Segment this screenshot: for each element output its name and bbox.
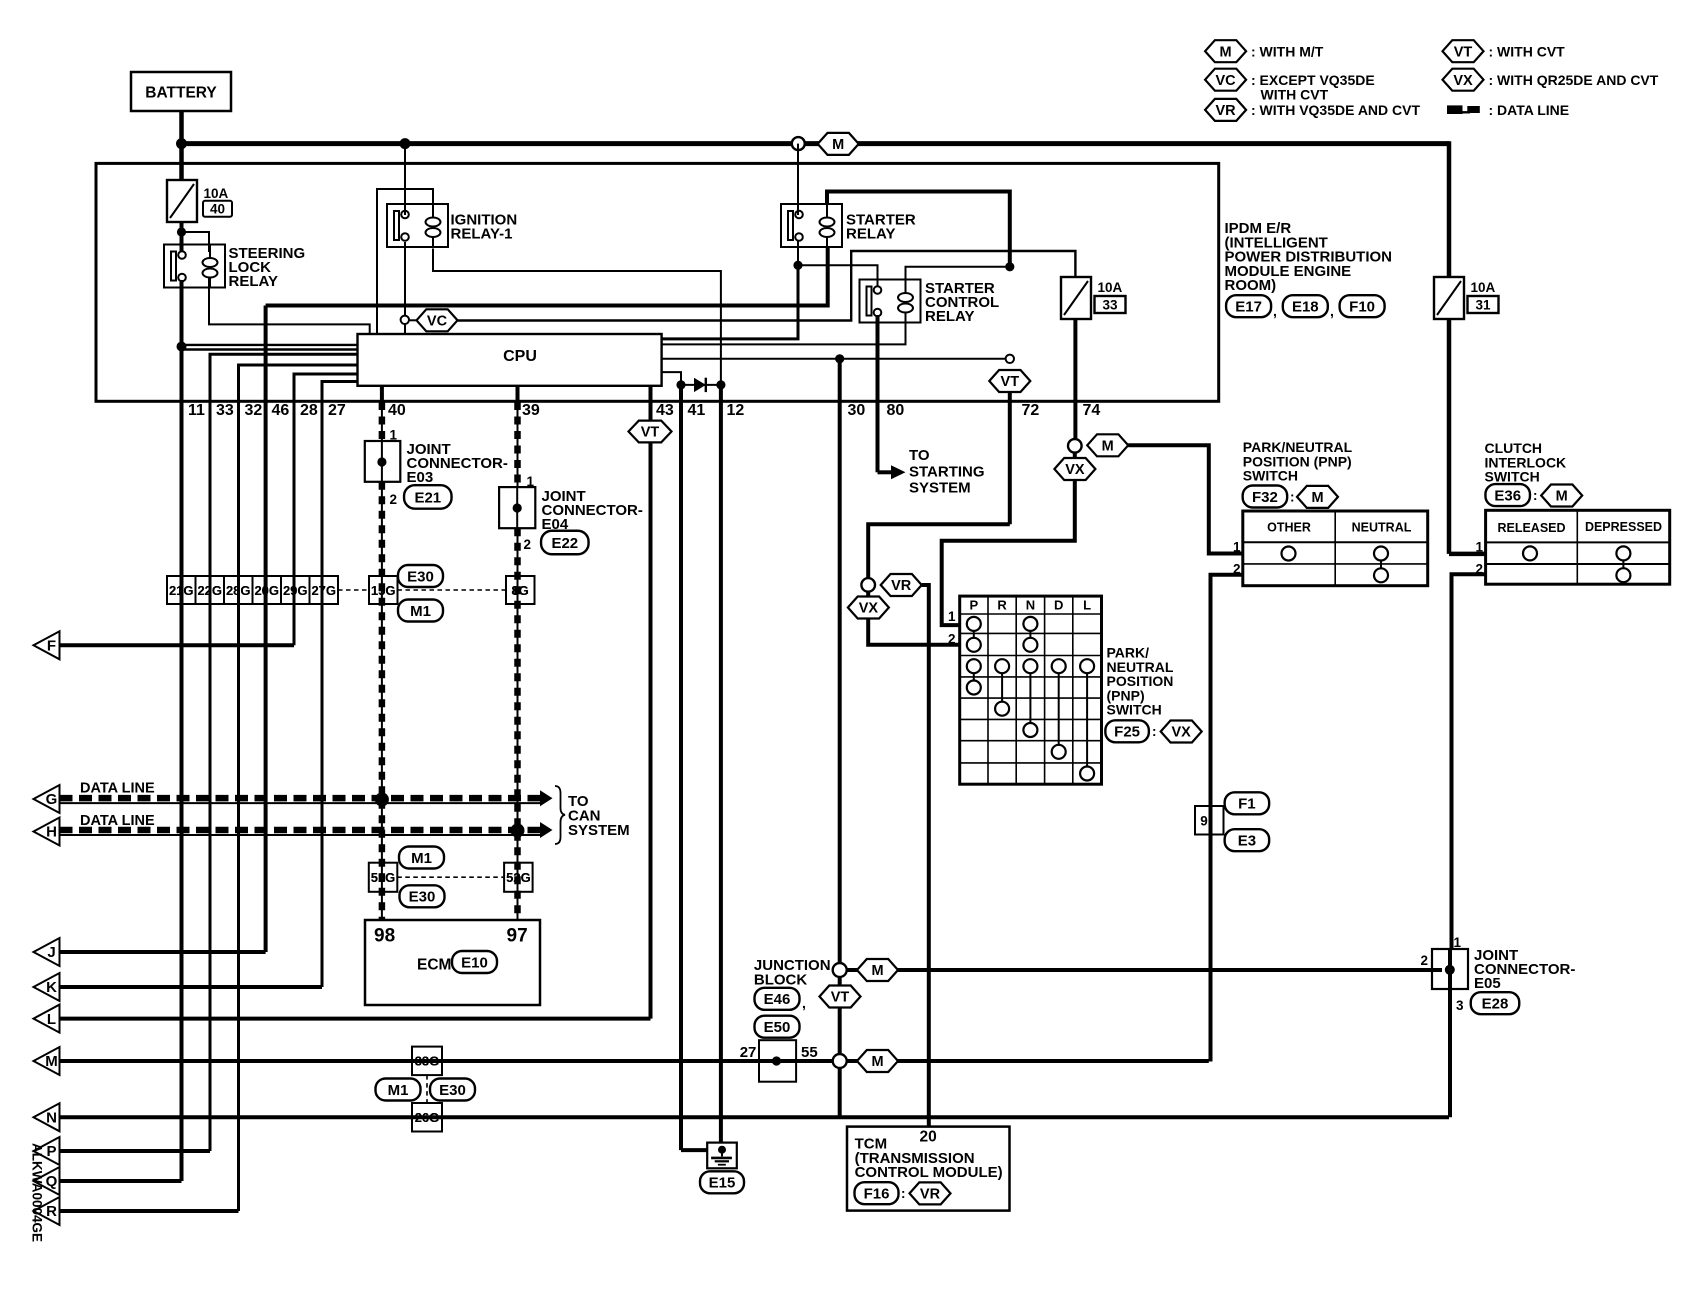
svg-text:,: , [1273, 303, 1277, 319]
svg-text:F1: F1 [1238, 796, 1256, 813]
svg-text:97: 97 [507, 926, 528, 947]
svg-text:E3: E3 [1238, 833, 1256, 850]
svg-text:10A: 10A [1471, 280, 1496, 295]
svg-text:J: J [47, 944, 55, 961]
svg-text:F: F [47, 638, 56, 655]
svg-text:M: M [1102, 439, 1114, 455]
svg-text:33: 33 [1102, 298, 1118, 313]
svg-text:SWITCH: SWITCH [1485, 469, 1540, 485]
svg-text:46: 46 [272, 402, 290, 419]
svg-text:TO: TO [909, 447, 930, 464]
svg-text:N: N [46, 1110, 57, 1127]
svg-text:55: 55 [801, 1044, 818, 1061]
svg-text:9: 9 [1200, 814, 1208, 829]
svg-text:51G: 51G [371, 870, 396, 885]
svg-text:72: 72 [1022, 402, 1040, 419]
svg-text::: : [901, 1186, 906, 1201]
svg-text:41: 41 [688, 402, 706, 419]
svg-text:: DATA LINE: : DATA LINE [1489, 102, 1570, 118]
svg-text:E15: E15 [709, 1175, 736, 1192]
svg-text:M: M [45, 1053, 58, 1070]
svg-text:15G: 15G [371, 583, 396, 598]
svg-text:E03: E03 [407, 469, 434, 486]
svg-text:RELAY: RELAY [925, 308, 974, 325]
svg-text:BLOCK: BLOCK [754, 972, 807, 989]
svg-text::: : [1290, 490, 1295, 505]
svg-text:,: , [1330, 303, 1334, 319]
svg-text:M: M [1220, 44, 1232, 60]
svg-text:1: 1 [527, 474, 535, 489]
svg-text:M1: M1 [410, 603, 431, 620]
svg-text:33G: 33G [415, 1054, 440, 1069]
svg-text:RELAY-1: RELAY-1 [451, 226, 513, 243]
svg-text:11: 11 [188, 402, 205, 419]
svg-text:52G: 52G [506, 870, 531, 885]
svg-text:,: , [802, 995, 806, 1011]
svg-text:BATTERY: BATTERY [145, 85, 217, 102]
svg-text:8G: 8G [511, 583, 528, 598]
svg-text:M: M [1311, 490, 1323, 506]
svg-text:40: 40 [210, 202, 225, 217]
svg-text:98: 98 [374, 926, 395, 947]
svg-text:74: 74 [1083, 402, 1101, 419]
svg-text:STARTING: STARTING [909, 464, 985, 481]
svg-text:1: 1 [390, 428, 398, 443]
svg-text:E17: E17 [1235, 299, 1262, 316]
svg-text:E28: E28 [1482, 996, 1509, 1013]
svg-text:VR: VR [920, 1187, 941, 1203]
svg-text:80: 80 [887, 402, 905, 419]
svg-text:M: M [832, 137, 844, 153]
svg-text:SYSTEM: SYSTEM [909, 480, 971, 497]
svg-text:VX: VX [1453, 73, 1473, 89]
svg-text:M1: M1 [411, 850, 432, 867]
svg-text:10A: 10A [1098, 280, 1123, 295]
svg-text:31: 31 [1475, 298, 1491, 313]
svg-text:21G: 21G [169, 583, 194, 598]
svg-text:26G: 26G [415, 1110, 440, 1125]
svg-text:CPU: CPU [503, 348, 537, 365]
svg-text:E50: E50 [764, 1019, 791, 1036]
svg-text:F10: F10 [1349, 299, 1375, 316]
svg-text:32: 32 [245, 402, 263, 419]
svg-text:VC: VC [1216, 73, 1237, 89]
svg-text:2: 2 [390, 492, 398, 507]
svg-text:ALKWA0004GE: ALKWA0004GE [30, 1143, 45, 1242]
svg-text:R: R [46, 1203, 57, 1220]
svg-text:ECM: ECM [417, 957, 451, 974]
svg-text:E30: E30 [407, 568, 434, 585]
svg-text:M: M [1556, 489, 1568, 505]
svg-text:E18: E18 [1292, 299, 1319, 316]
svg-text:43: 43 [656, 402, 674, 419]
svg-text:VT: VT [1454, 44, 1473, 60]
svg-text:2: 2 [1420, 953, 1428, 968]
svg-text:E21: E21 [414, 489, 441, 506]
svg-text:28G: 28G [226, 583, 251, 598]
svg-text:20G: 20G [254, 583, 279, 598]
svg-text:RELAY: RELAY [229, 273, 278, 290]
svg-text:L: L [1083, 598, 1091, 613]
svg-text:DATA LINE: DATA LINE [80, 813, 155, 829]
svg-text:1: 1 [948, 609, 956, 624]
svg-text:27: 27 [328, 402, 346, 419]
svg-text:P: P [46, 1143, 56, 1160]
svg-text:VT: VT [1001, 374, 1020, 390]
svg-text:1: 1 [1233, 540, 1241, 555]
svg-text:E36: E36 [1494, 488, 1521, 505]
svg-text:G: G [46, 791, 58, 808]
svg-text:29G: 29G [283, 583, 308, 598]
svg-text:1: 1 [1454, 935, 1462, 950]
svg-text:SWITCH: SWITCH [1107, 702, 1162, 718]
svg-text:P: P [969, 598, 978, 613]
svg-text:Q: Q [46, 1173, 58, 1190]
svg-text:VX: VX [1065, 462, 1085, 478]
svg-text:E05: E05 [1474, 975, 1501, 992]
svg-text:H: H [46, 824, 57, 841]
svg-text::: : [1152, 724, 1157, 739]
svg-text:VT: VT [831, 990, 850, 1006]
svg-text:M: M [871, 1054, 883, 1070]
svg-text:E30: E30 [409, 889, 436, 906]
svg-text:VT: VT [641, 425, 660, 441]
svg-text:NEUTRAL: NEUTRAL [1352, 521, 1412, 535]
svg-text:22G: 22G [197, 583, 222, 598]
svg-text:R: R [997, 598, 1007, 613]
svg-text:27: 27 [740, 1044, 757, 1061]
svg-text:M1: M1 [388, 1082, 409, 1099]
svg-text:40: 40 [388, 402, 406, 419]
svg-text:VR: VR [891, 578, 912, 594]
svg-text:F16: F16 [864, 1186, 890, 1203]
svg-text:F32: F32 [1252, 489, 1278, 506]
svg-text:L: L [47, 1011, 56, 1028]
svg-text:: WITH M/T: : WITH M/T [1251, 43, 1324, 59]
svg-text:VX: VX [1172, 725, 1192, 741]
svg-text:SWITCH: SWITCH [1243, 468, 1298, 484]
svg-text:K: K [46, 979, 57, 996]
svg-text::: : [1533, 488, 1538, 503]
svg-text:M: M [871, 963, 883, 979]
svg-text:DATA LINE: DATA LINE [80, 781, 155, 797]
svg-text:: WITH CVT: : WITH CVT [1489, 43, 1566, 59]
svg-text:VR: VR [1216, 103, 1237, 119]
svg-text:DEPRESSED: DEPRESSED [1585, 520, 1662, 534]
svg-text:39: 39 [522, 402, 540, 419]
svg-text:2: 2 [524, 537, 532, 552]
svg-text:27G: 27G [311, 583, 336, 598]
svg-text:30: 30 [848, 402, 866, 419]
svg-text:2: 2 [948, 632, 956, 647]
svg-text:SYSTEM: SYSTEM [568, 822, 630, 839]
svg-text:20: 20 [920, 1129, 937, 1146]
svg-text:12: 12 [727, 402, 745, 419]
svg-text:E30: E30 [439, 1082, 466, 1099]
svg-text:RELAY: RELAY [846, 226, 895, 243]
svg-text:F25: F25 [1114, 724, 1140, 741]
svg-text:E46: E46 [764, 991, 791, 1008]
svg-text:3: 3 [1456, 998, 1464, 1013]
svg-text:WITH CVT: WITH CVT [1261, 86, 1329, 102]
svg-text:VC: VC [427, 314, 448, 330]
svg-text:CONTROL MODULE): CONTROL MODULE) [855, 1164, 1003, 1181]
svg-text:D: D [1054, 598, 1063, 613]
svg-text:E10: E10 [461, 954, 488, 971]
svg-text:OTHER: OTHER [1267, 521, 1311, 535]
svg-text:VX: VX [859, 601, 879, 617]
svg-text:10A: 10A [204, 186, 229, 201]
svg-text:ROOM): ROOM) [1225, 277, 1277, 294]
svg-text:: WITH VQ35DE AND CVT: : WITH VQ35DE AND CVT [1251, 102, 1420, 118]
svg-text:RELEASED: RELEASED [1497, 521, 1565, 535]
svg-text:28: 28 [300, 402, 318, 419]
svg-text:33: 33 [216, 402, 234, 419]
svg-text:: WITH QR25DE AND CVT: : WITH QR25DE AND CVT [1489, 72, 1659, 88]
svg-text:E22: E22 [551, 535, 578, 552]
svg-text:N: N [1026, 598, 1035, 613]
